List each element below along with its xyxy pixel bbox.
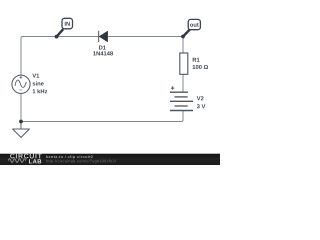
- label R1 value 100 ohm: [193, 65, 208, 69]
- wire top rail and left/right verticals: [21, 37, 183, 76]
- label D1 designator: [99, 46, 106, 50]
- CircuitLab logo: [8, 154, 41, 164]
- label R1 designator: [193, 58, 200, 62]
- wire bottom rail: [21, 111, 183, 122]
- footer bar: [0, 154, 220, 165]
- voltage source V1: [12, 75, 30, 93]
- battery V2: [170, 86, 193, 110]
- label V1 designator: [32, 74, 39, 78]
- ground: [13, 122, 30, 138]
- wire V1 bottom to bottom rail: [20, 93, 22, 121]
- label V1 function sine: [33, 81, 44, 85]
- resistor R1: [180, 53, 188, 74]
- diode D1: [99, 31, 108, 42]
- node out flag: [181, 19, 200, 38]
- label R1 value: [193, 58, 208, 69]
- label D1: [93, 46, 113, 56]
- label V2 designator: [197, 96, 204, 100]
- label V1 value: [32, 74, 47, 94]
- wire resistor to battery: [182, 74, 184, 92]
- label V2 value 3 V: [197, 104, 206, 108]
- footer text: [46, 155, 116, 163]
- label D1 part 1N4148: [93, 51, 113, 55]
- node IN flag: [55, 18, 73, 38]
- label V2 value: [197, 96, 206, 108]
- label V1 frequency 1 kHz: [33, 89, 48, 93]
- node junction at ground: [19, 120, 23, 124]
